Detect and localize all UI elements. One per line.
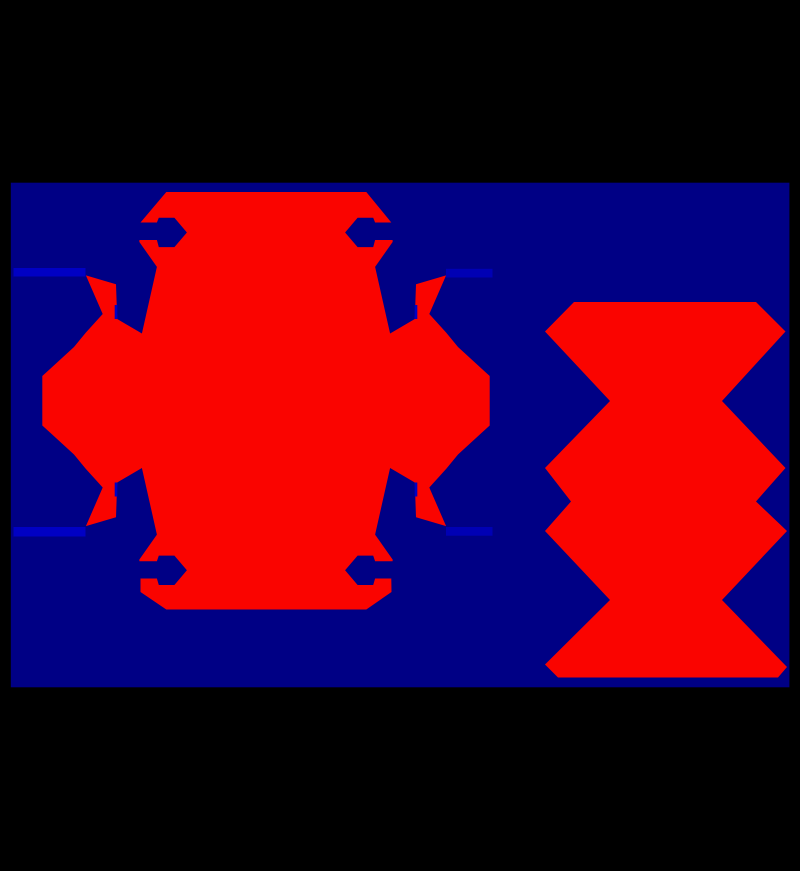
bright blue vertical sliver lower-right [415, 483, 418, 497]
bright blue vertical sliver lower-left [115, 483, 118, 497]
NW hexagon socket + channel (navy cutout) [133, 218, 187, 247]
navy field rectangle [11, 183, 790, 688]
NE hexagon socket + channel (navy cutout) [345, 218, 399, 247]
bright blue vertical sliver upper-right [415, 305, 418, 319]
SE hexagon socket + channel (navy cutout) [345, 556, 399, 585]
right red zigzag ribbon [545, 302, 787, 678]
bright blue leader line upper-right [446, 269, 493, 278]
bright blue leader line lower-right [446, 527, 493, 536]
left emblem: red core mass [42, 192, 489, 610]
bright blue leader line lower-left [14, 527, 86, 537]
bright blue leader line upper-left [14, 268, 86, 277]
bright blue vertical sliver upper-left [115, 305, 118, 319]
SW hexagon socket + channel (navy cutout) [133, 556, 187, 585]
